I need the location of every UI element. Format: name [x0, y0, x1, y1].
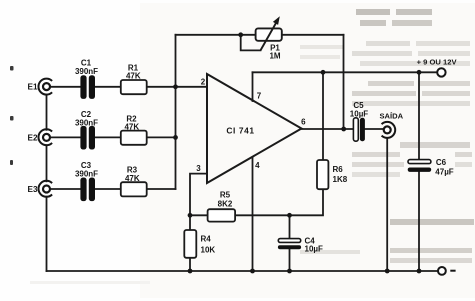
wire op-amp pin 7 to V+ rail	[252, 72, 254, 101]
svg-text:4: 4	[255, 161, 260, 170]
wire E2 jack to C2	[50, 136, 80, 138]
wire C3 to R3	[95, 188, 121, 190]
wire C4 bottom lead	[289, 249, 291, 271]
svg-text:E2: E2	[27, 133, 37, 142]
capacitor C2	[80, 126, 95, 150]
terminal 0V negative	[438, 267, 456, 275]
node output feedback	[341, 127, 346, 132]
scan artifacts left margin	[10, 66, 14, 165]
node P1 wiper tap	[238, 32, 243, 37]
wire op-amp pin 4 to ground rail	[252, 157, 254, 271]
wire R3 to summing node	[147, 188, 176, 190]
svg-text:390nF: 390nF	[75, 67, 98, 76]
svg-text:R4: R4	[201, 235, 212, 244]
svg-text:+ 9 OU 12V: + 9 OU 12V	[417, 58, 458, 67]
wire P1 left lead	[176, 34, 256, 36]
node ground SAIDA	[385, 269, 390, 274]
node pin3 R5	[188, 213, 193, 218]
wire R1 to op-amp pin 2	[147, 86, 207, 88]
resistor R1	[121, 80, 147, 94]
wire E3 jack to C3	[50, 188, 80, 190]
op-amp U1 CI741	[207, 74, 302, 183]
capacitor C5	[353, 118, 365, 141]
svg-text:10µF: 10µF	[305, 244, 324, 253]
node ground C4	[287, 269, 292, 274]
wire feedback from P1 to output node	[343, 35, 345, 129]
svg-text:6: 6	[301, 117, 306, 126]
wire C6 bottom lead	[418, 172, 420, 271]
resistor R2	[121, 131, 147, 145]
resistor R6	[317, 160, 328, 189]
svg-text:10µF: 10µF	[350, 109, 369, 118]
node summing R2	[173, 135, 178, 140]
svg-text:7: 7	[257, 91, 262, 100]
wire C5 to SAIDA jack	[365, 128, 384, 130]
node bias C4	[287, 213, 292, 218]
svg-text:C6: C6	[436, 158, 447, 167]
jack E2	[38, 129, 52, 145]
resistor R4	[184, 230, 196, 258]
svg-text:E1: E1	[27, 83, 37, 92]
wire R4 bottom to ground rail	[189, 258, 191, 271]
svg-text:390nF: 390nF	[75, 118, 98, 127]
svg-text:3: 3	[196, 164, 201, 173]
svg-text:10K: 10K	[201, 245, 216, 254]
svg-text:CI 741: CI 741	[226, 125, 254, 135]
svg-text:E3: E3	[27, 185, 37, 194]
wire input ground bus E1-E2	[46, 95, 48, 130]
svg-text:47K: 47K	[124, 122, 139, 131]
svg-text:8K2: 8K2	[218, 199, 233, 208]
svg-text:R5: R5	[220, 191, 231, 200]
node V+ C6	[417, 70, 422, 75]
node V+ bias	[321, 70, 326, 75]
svg-text:1K8: 1K8	[333, 175, 348, 184]
svg-text:1M: 1M	[269, 51, 280, 60]
jack E3	[38, 181, 52, 197]
jack SAIDA	[382, 122, 396, 138]
node ground R4	[188, 269, 193, 274]
svg-text:R6: R6	[333, 165, 344, 174]
wire R6 bottom to bias node	[235, 189, 323, 215]
resistor R5	[208, 209, 236, 221]
wire bias node to R5 left / pin 3	[190, 214, 208, 216]
wire op-amp pin 3	[190, 174, 207, 230]
svg-text:SAÍDA: SAÍDA	[379, 111, 403, 120]
wire input ground bus E2-E3	[46, 145, 48, 181]
wire C2 to R2	[95, 136, 121, 138]
node ground C6	[417, 269, 422, 274]
wire op-amp output to C5	[301, 128, 353, 130]
node summing R1	[173, 84, 178, 89]
svg-text:47µF: 47µF	[435, 168, 454, 177]
terminal +V supply	[437, 68, 445, 76]
wire input ground bus E3 to rail	[46, 197, 48, 271]
wire V+ rail	[253, 71, 438, 73]
capacitor C6	[408, 160, 432, 172]
wire P1 wiper tap	[241, 35, 261, 51]
wire V+ to R6 top	[322, 72, 324, 160]
wire C6 top lead	[418, 72, 420, 159]
capacitor C3	[80, 178, 95, 202]
capacitor C4	[278, 239, 301, 250]
wire C4 top lead	[289, 215, 291, 238]
svg-text:47K: 47K	[125, 174, 140, 183]
wire E1 jack to C1	[50, 86, 80, 88]
svg-text:2: 2	[201, 78, 206, 87]
wire P1 right lead	[282, 34, 344, 36]
node junction dots	[173, 32, 421, 273]
wire ground rail bottom	[47, 270, 439, 272]
wire summing node vertical bus	[175, 35, 177, 189]
jack E1	[38, 79, 52, 95]
resistor R3	[121, 182, 147, 196]
svg-text:47K: 47K	[126, 72, 141, 81]
wire R2 to summing node	[147, 136, 176, 138]
wire SAIDA jack sleeve to ground rail	[386, 138, 388, 271]
capacitor C1	[80, 75, 95, 99]
wire C1 to R1	[95, 86, 121, 88]
potentiometer P1	[256, 16, 282, 50]
node ground pin4	[250, 269, 255, 274]
svg-text:390nF: 390nF	[75, 169, 98, 178]
